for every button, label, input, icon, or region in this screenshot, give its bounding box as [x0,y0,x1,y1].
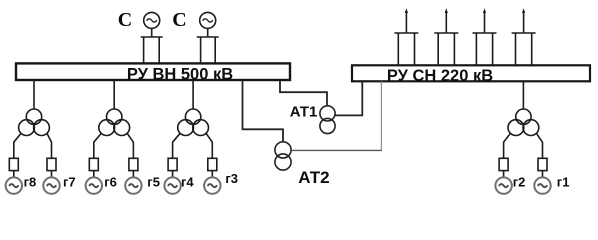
svg-text:г7: г7 [63,175,76,190]
svg-text:АТ1: АТ1 [290,104,318,121]
svg-text:С: С [172,9,186,31]
svg-text:АТ2: АТ2 [298,168,329,187]
svg-text:С: С [118,9,132,31]
svg-text:РУ СН 220 кВ: РУ СН 220 кВ [387,67,493,85]
svg-text:г1: г1 [557,175,570,190]
svg-text:РУ ВН 500 кВ: РУ ВН 500 кВ [127,65,233,83]
svg-text:г5: г5 [147,175,160,190]
svg-text:г4: г4 [181,175,194,190]
svg-text:г3: г3 [225,171,238,186]
svg-text:г8: г8 [24,175,37,190]
svg-text:г6: г6 [104,175,117,190]
svg-text:г2: г2 [513,175,526,190]
